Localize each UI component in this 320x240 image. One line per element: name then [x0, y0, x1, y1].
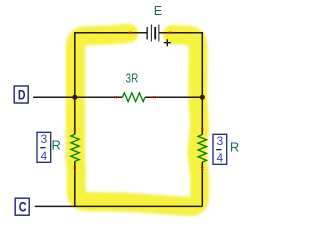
- resistor right 3/4 R: [198, 135, 207, 163]
- svg-text:4: 4: [216, 151, 223, 165]
- terminal marks 3R right: [152, 96, 157, 99]
- label box 3/4 (left): [37, 132, 51, 163]
- svg-text:C: C: [19, 200, 27, 215]
- svg-text:R: R: [52, 137, 61, 152]
- terminal marks right resistor top: [201, 127, 204, 132]
- svg-text:R: R: [230, 139, 239, 154]
- terminal marks battery left: [128, 31, 133, 34]
- wire top-right (battery to corner): [159, 32, 203, 34]
- svg-text:D: D: [18, 87, 26, 102]
- resistor left 3/4 R: [71, 134, 79, 161]
- svg-text:E: E: [154, 4, 162, 18]
- terminal marks 3R left: [113, 96, 118, 99]
- terminal marks battery right: [168, 31, 173, 34]
- battery plus sign: [164, 39, 171, 46]
- terminal marks right resistor bottom: [201, 166, 204, 171]
- label box 3/4 (right): [213, 134, 227, 165]
- highlighter band (yellow, soft edges): [75, 33, 199, 206]
- node C box: [15, 198, 29, 215]
- junction node left (on D wire): [72, 95, 77, 100]
- svg-text:3: 3: [216, 134, 223, 148]
- wire right side: [201, 32, 203, 206]
- wire left side: [74, 32, 76, 206]
- terminal marks left resistor top: [73, 127, 76, 132]
- wire bottom (from node C to bottom-right corner): [35, 205, 203, 207]
- wire middle (from node D to right side): [33, 96, 202, 98]
- wire top-left (corner to battery): [75, 32, 147, 34]
- svg-text:4: 4: [40, 149, 47, 163]
- battery E: [147, 25, 160, 42]
- resistor 3R (middle): [122, 93, 145, 102]
- node D box: [14, 86, 28, 103]
- terminal marks left resistor bottom: [73, 166, 76, 171]
- junction node right (on D wire): [200, 95, 205, 100]
- svg-text:3: 3: [40, 132, 47, 146]
- svg-text:3R: 3R: [126, 70, 139, 85]
